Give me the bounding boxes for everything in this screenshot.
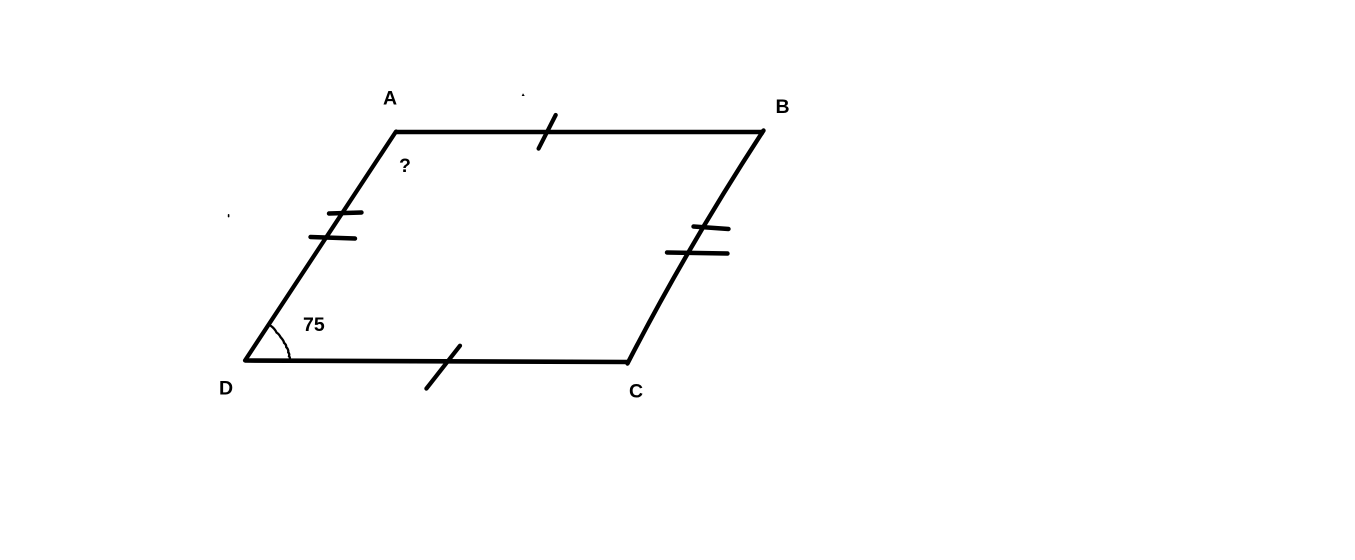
- svg-text:?: ?: [399, 155, 411, 177]
- svg-text:A: A: [383, 88, 397, 110]
- side AB (top): [396, 130, 764, 135]
- side AD (left): [245, 132, 396, 361]
- svg-text:B: B: [776, 96, 790, 118]
- svg-text:75: 75: [303, 314, 325, 336]
- stray dot near top: [522, 93, 525, 96]
- tick mark on AB: [539, 115, 556, 149]
- side BC (right): [628, 131, 764, 364]
- svg-text:C: C: [629, 381, 643, 403]
- upper tick mark on BC: [694, 227, 729, 230]
- lower tick mark on AD: [311, 237, 356, 239]
- angle arc at D: [271, 326, 290, 359]
- svg-text:D: D: [219, 378, 233, 400]
- lower tick mark on BC: [667, 253, 728, 254]
- side DC (bottom): [245, 361, 629, 363]
- tick mark on DC: [426, 346, 460, 389]
- stray dot near left: [228, 214, 230, 217]
- upper tick mark on AD: [329, 213, 362, 214]
